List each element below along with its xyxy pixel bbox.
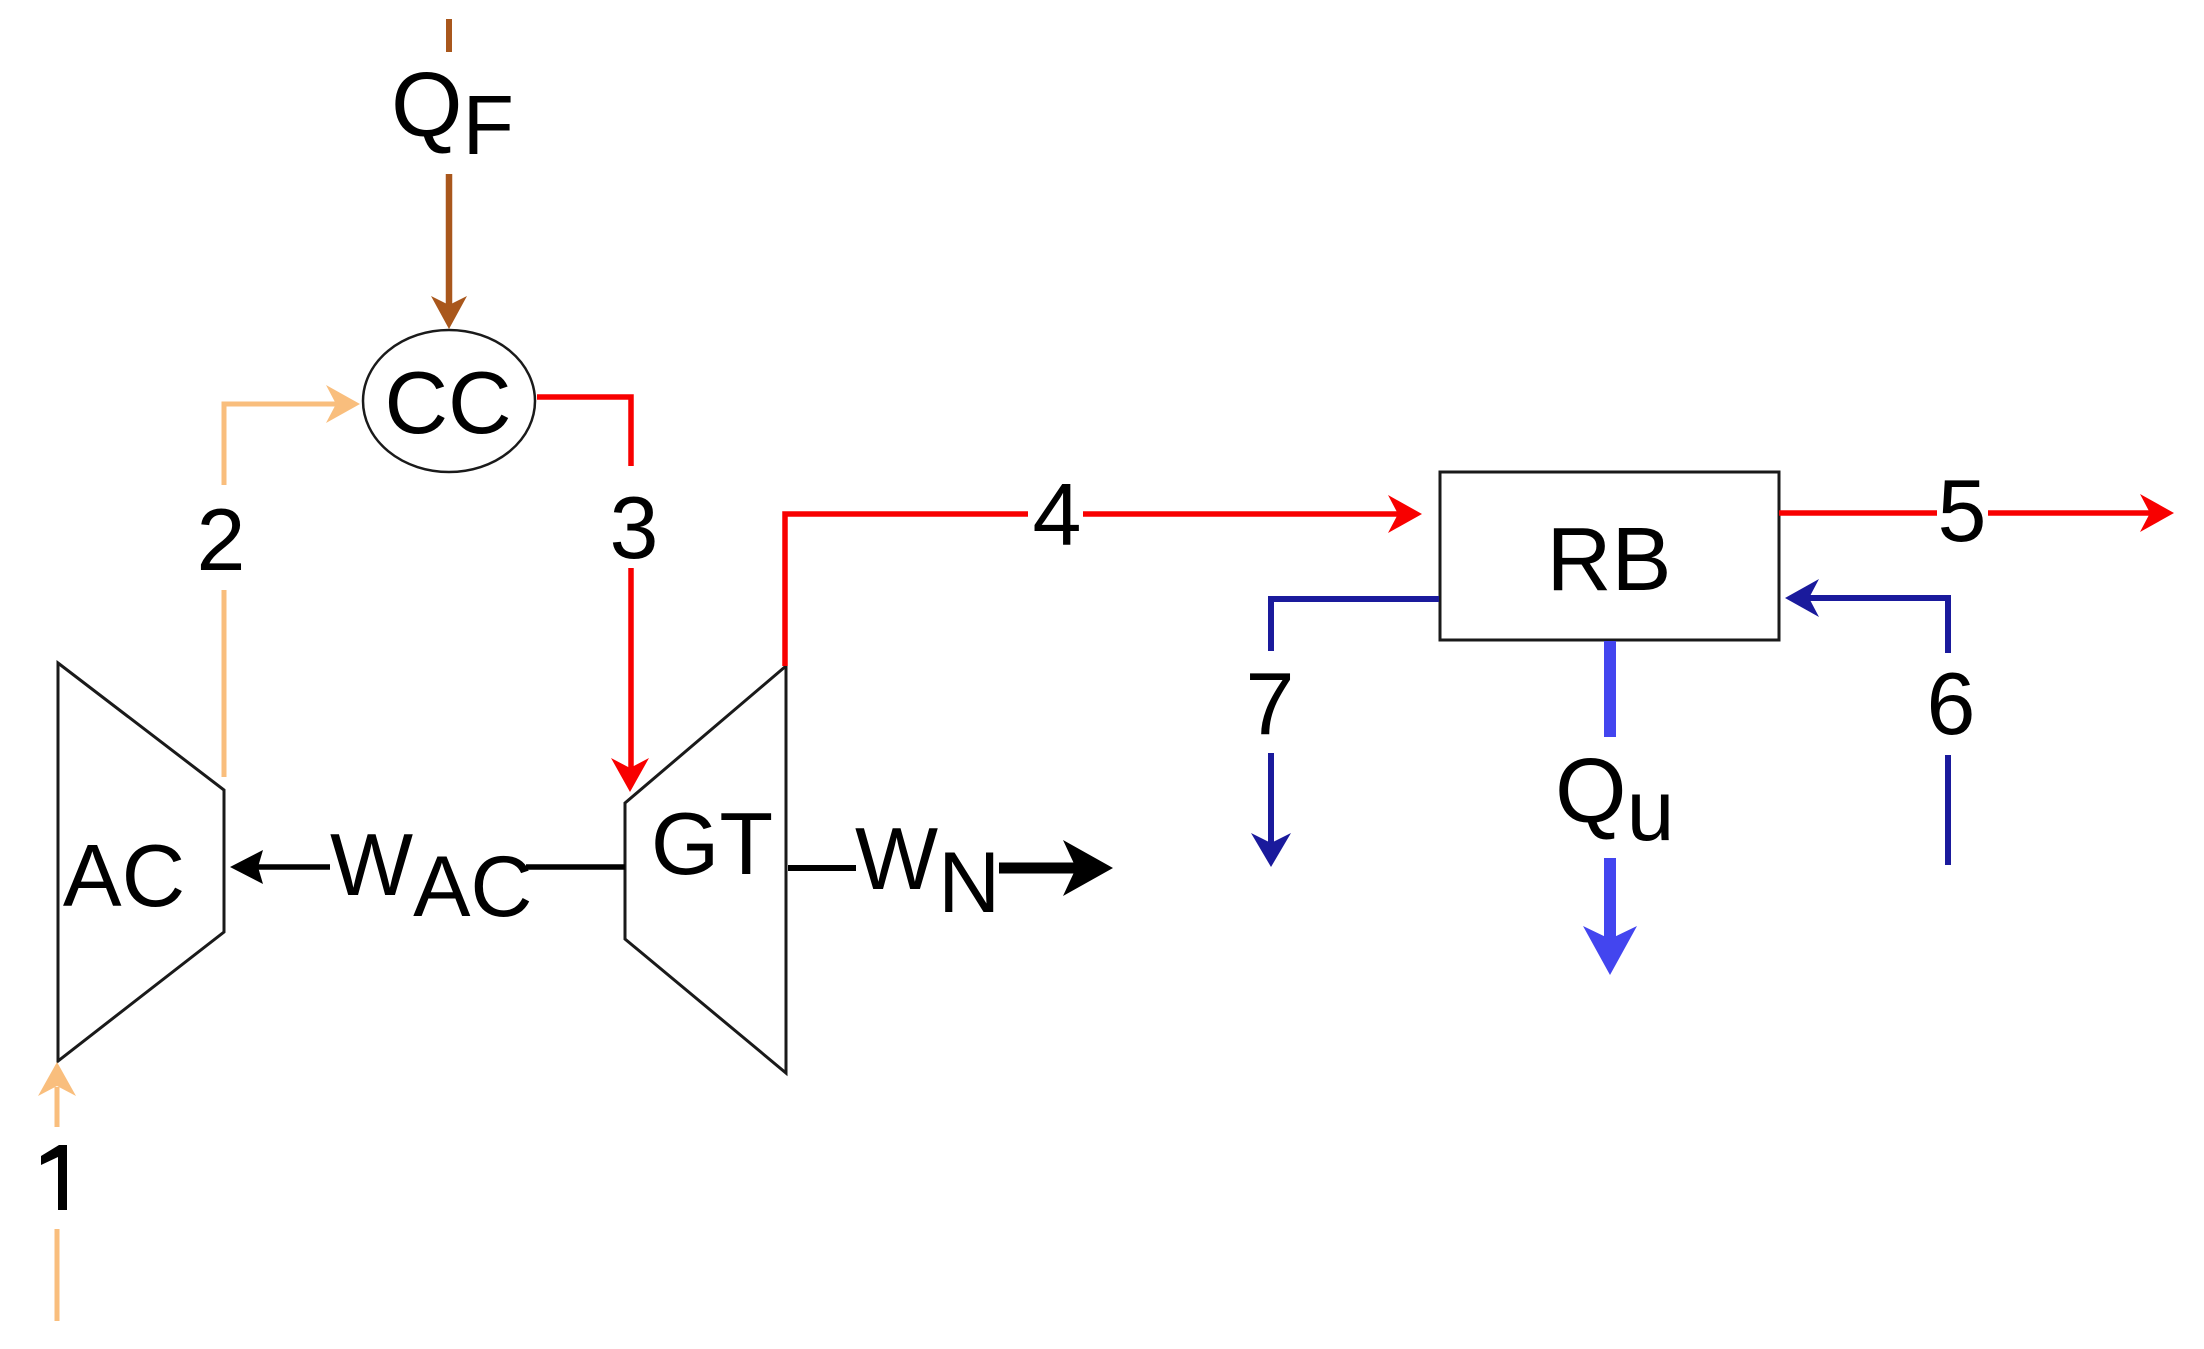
svg-text:3: 3 (610, 478, 659, 577)
wire stream 4 from GT (785, 514, 1028, 666)
wire stream 2 lower segment (222, 590, 227, 777)
WAC shaft work arrow into AC (230, 850, 263, 884)
svg-text:2: 2 (197, 490, 246, 589)
recovery boiler RB (1440, 472, 1779, 640)
wire stream 4 arrow into RB (1083, 511, 1399, 517)
QF fuel heat dashed stub (446, 19, 452, 52)
WN net work bold arrow (999, 863, 1078, 874)
QF arrow into CC (446, 174, 453, 306)
wire stream 7 from RB (1271, 599, 1439, 651)
Qu exit arrow (1604, 858, 1616, 940)
turbine GT (625, 666, 786, 1073)
svg-text:7: 7 (1246, 654, 1295, 753)
svg-text:RB: RB (1546, 510, 1671, 610)
Qu useful heat stub from RB (1604, 641, 1616, 737)
WN net work link from GT (788, 865, 856, 871)
combustion chamber CC (363, 330, 535, 472)
svg-text:GT: GT (651, 794, 773, 893)
wire stream 7 exit arrow (1268, 753, 1274, 844)
wire stream 1 dashed tail (55, 1229, 60, 1321)
wire stream 3 arrow into GT (628, 568, 634, 769)
wire stream 6 arrow into RB (1808, 598, 1948, 653)
svg-text:AC: AC (63, 826, 185, 925)
wire stream 5 from RB (1779, 510, 1937, 516)
svg-text:CC: CC (384, 353, 511, 452)
compressor AC (58, 663, 224, 1061)
wire stream 5 exit arrow (1988, 510, 2151, 516)
wire stream 1 arrow into AC (55, 1087, 60, 1127)
WAC shaft link to GT (526, 864, 625, 870)
svg-text:4: 4 (1033, 465, 1082, 564)
svg-text:5: 5 (1938, 461, 1987, 560)
wire stream 3 from CC (537, 397, 631, 466)
wire stream 6 lower segment (1945, 755, 1951, 865)
svg-text:6: 6 (1927, 654, 1976, 753)
label 1 (41, 1145, 67, 1210)
wire stream 2 upper segment into CC (224, 404, 337, 485)
